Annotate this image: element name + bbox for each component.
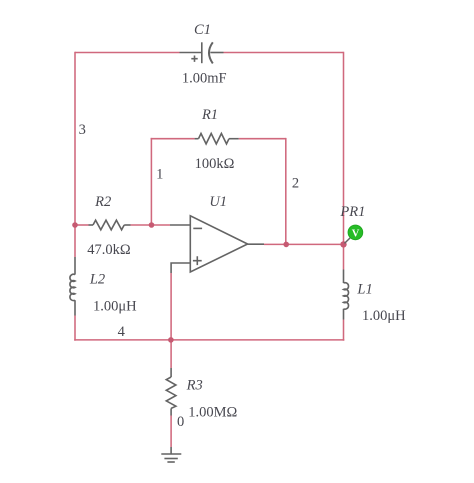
wire node 1 to op-amp minus lead xyxy=(152,224,171,226)
svg-text:U1: U1 xyxy=(209,194,227,210)
junction node 4 at R3 xyxy=(168,337,174,343)
svg-text:R1: R1 xyxy=(201,107,218,123)
wire L1 bottom to bottom rail xyxy=(343,320,345,341)
wire left rail to R2 xyxy=(75,224,89,226)
svg-text:1.00μH: 1.00μH xyxy=(362,308,406,324)
wire node 2 vertical xyxy=(285,138,287,245)
wire bottom rail (node 4) xyxy=(74,339,344,341)
inductor L2 xyxy=(70,257,75,316)
svg-text:1.00MΩ: 1.00MΩ xyxy=(188,404,237,420)
inductor L1 xyxy=(344,270,349,320)
svg-text:1: 1 xyxy=(156,167,163,183)
svg-text:2: 2 xyxy=(292,176,299,192)
wire left rail lower xyxy=(74,316,76,341)
wire node 1 vertical to R1 xyxy=(150,138,152,225)
resistor R3 xyxy=(166,368,176,416)
svg-text:PR1: PR1 xyxy=(339,204,365,220)
wire R3 to ground xyxy=(170,416,172,448)
capacitor C1 xyxy=(180,42,224,63)
wire op-amp plus input down to bottom rail xyxy=(170,273,172,340)
wire right rail to L1 xyxy=(343,244,345,269)
svg-text:1.00mF: 1.00mF xyxy=(182,70,227,86)
svg-text:R2: R2 xyxy=(94,194,111,210)
op-amp U1 xyxy=(170,216,264,273)
wire R2 to node 1 xyxy=(131,224,152,226)
wire C1 to top-right corner xyxy=(224,52,344,54)
wire R1 left xyxy=(151,138,195,140)
svg-text:L1: L1 xyxy=(356,281,372,297)
junction node PR1 xyxy=(340,241,346,247)
junction node 1 xyxy=(149,222,155,228)
svg-text:3: 3 xyxy=(79,122,86,138)
wire op-amp output to PR1 node xyxy=(264,243,344,245)
svg-text:R3: R3 xyxy=(186,377,203,393)
svg-text:V: V xyxy=(352,229,360,240)
wire bottom rail to R3 xyxy=(170,340,172,368)
resistor R2 xyxy=(89,220,131,230)
svg-text:1.00μH: 1.00μH xyxy=(93,299,137,315)
ground xyxy=(161,447,181,462)
svg-text:4: 4 xyxy=(118,324,126,340)
svg-text:47.0kΩ: 47.0kΩ xyxy=(87,242,131,258)
probe PR1 xyxy=(345,225,363,243)
wire top-left to C1 xyxy=(75,52,180,54)
junction node on left rail at R2 xyxy=(72,222,78,228)
svg-text:L2: L2 xyxy=(89,272,105,288)
wire right rail upper xyxy=(343,52,345,245)
svg-text:100kΩ: 100kΩ xyxy=(195,156,235,172)
wire R1 right xyxy=(239,138,286,140)
resistor R1 xyxy=(195,134,239,144)
wire left rail upper (node 3) xyxy=(74,52,76,257)
svg-text:C1: C1 xyxy=(194,22,211,38)
svg-text:0: 0 xyxy=(177,414,184,430)
junction node 2 at output xyxy=(283,242,289,248)
